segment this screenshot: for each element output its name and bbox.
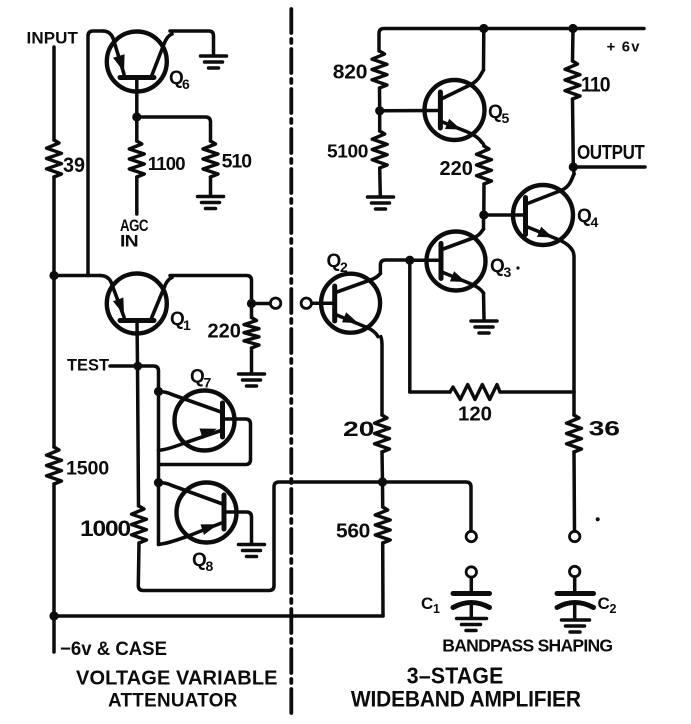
terminal circle C1 upper: [466, 531, 476, 541]
node at 409,260: [405, 256, 414, 265]
svg-text:BANDPASS SHAPING: BANDPASS SHAPING: [442, 636, 612, 656]
wire 39 to junction: [52, 177, 56, 276]
wire Q8 base: [224, 512, 252, 543]
resistor 5100: [327, 111, 387, 168]
resistor 560: [336, 482, 390, 543]
wire 510 to ground: [209, 177, 213, 196]
speck near C2: [596, 517, 600, 521]
node at 136,117: [132, 112, 141, 121]
terminal circle C2 lower: [570, 566, 580, 576]
svg-text:3–STAGE: 3–STAGE: [407, 663, 504, 689]
transistor Q8: [159, 483, 237, 575]
svg-text:1000: 1000: [80, 516, 131, 541]
svg-text:WIDEBAND AMPLIFIER: WIDEBAND AMPLIFIER: [351, 687, 581, 712]
resistor 510: [203, 141, 251, 177]
ground Q8: [239, 545, 265, 557]
svg-text:1: 1: [433, 602, 440, 616]
svg-text:220: 220: [208, 321, 241, 343]
wire Q5 collector up to rail: [482, 29, 486, 71]
label AGC IN: [120, 217, 149, 251]
node at 379,111: [375, 106, 384, 115]
wire feedback right segment: [500, 390, 574, 394]
svg-text:TEST: TEST: [67, 357, 109, 375]
resistor 20: [343, 415, 390, 452]
transistor Q7: [159, 367, 235, 451]
wire 560 bottom: [381, 543, 385, 616]
transistor Q2: [321, 251, 380, 337]
svg-text:−6v & CASE: −6v & CASE: [60, 639, 167, 660]
svg-text:6: 6: [182, 76, 190, 92]
wire Q6 base: [135, 78, 139, 142]
wire Q1 base down: [137, 321, 139, 507]
svg-text:510: 510: [222, 152, 252, 173]
wire 36 bottom to C2 terminal: [572, 452, 576, 531]
svg-text:7: 7: [204, 375, 212, 391]
wire Q3 base / feedback stub: [408, 260, 412, 392]
wire 220 to ground: [250, 348, 254, 373]
ground Q6 collector: [201, 56, 227, 68]
node at 251,304: [247, 299, 256, 308]
node at 382,482: [378, 477, 387, 486]
wire 1000 bottom loop to amplifier: [138, 482, 382, 591]
node at 54,275: [49, 271, 58, 280]
svg-text:1100: 1100: [148, 153, 185, 174]
resistor 1500: [47, 447, 110, 484]
svg-text:120: 120: [458, 404, 492, 426]
wire Q2 emitter down: [381, 337, 382, 415]
resistor 220 right: [440, 146, 492, 184]
terminal circle C1 lower: [466, 567, 476, 577]
svg-text:220: 220: [440, 158, 473, 180]
wire Q7 base loop: [159, 419, 251, 465]
ground 5100: [368, 197, 394, 209]
resistor 110: [565, 29, 610, 100]
wire left rail lower: [52, 276, 56, 653]
ground 220 left: [239, 374, 265, 386]
node at 573,167: [569, 162, 578, 171]
wire 5100 to ground: [378, 168, 382, 196]
wire Q3 emitter to ground: [482, 293, 486, 319]
wire terminal to Q2 base: [312, 301, 335, 305]
svg-text:C: C: [421, 594, 433, 613]
node at 158,391: [154, 387, 163, 396]
wire Q1 collector to node: [170, 276, 252, 304]
resistor 120: [450, 385, 500, 426]
wire 20 bottom: [380, 452, 384, 482]
wire 110 bottom: [571, 99, 575, 167]
wire Q4 emitter down: [572, 249, 575, 415]
terminal circle right: [301, 298, 311, 308]
ground 510: [198, 197, 224, 209]
svg-text:ATTENUATOR: ATTENUATOR: [108, 691, 238, 712]
wire Q3 base lead: [410, 258, 441, 262]
node at 484,215: [479, 210, 488, 219]
capacitor C1: [421, 578, 490, 618]
wire Q5 base lead: [380, 109, 441, 113]
node at 573,28: [568, 24, 577, 33]
wire Q3 collector up to node: [482, 215, 486, 229]
svg-text:1500: 1500: [66, 458, 109, 480]
transistor Q6: [103, 31, 190, 92]
svg-text:110: 110: [581, 74, 610, 97]
resistor 220 left: [208, 304, 260, 349]
capacitor C2: [557, 577, 617, 618]
wire 220 bottom: [482, 184, 486, 215]
svg-text:VOLTAGE VARIABLE: VOLTAGE VARIABLE: [76, 668, 278, 690]
svg-text:4: 4: [591, 214, 599, 230]
wire Q2 collector to node: [380, 260, 410, 274]
svg-text:8: 8: [206, 558, 214, 574]
wire OUTPUT lead: [573, 165, 645, 169]
wire Q6 collector to ground: [170, 31, 214, 55]
terminal circle left: [270, 298, 280, 308]
svg-text:36: 36: [589, 418, 620, 441]
svg-text:IN: IN: [120, 233, 138, 251]
wire top rail +6v: [379, 29, 644, 52]
node at 54,616: [49, 611, 58, 620]
wire feedback left segment: [410, 390, 450, 394]
wire TEST branch right and down: [138, 366, 159, 544]
ground C2: [562, 620, 590, 632]
svg-text:820: 820: [333, 61, 368, 84]
svg-text:1: 1: [183, 317, 191, 333]
node at 158,483: [154, 478, 163, 487]
terminal circle C2 upper: [570, 531, 580, 541]
svg-text:C: C: [598, 594, 610, 613]
resistor 1100: [129, 141, 185, 177]
ground Q3: [471, 321, 497, 333]
wire TEST lead: [110, 364, 138, 368]
wire input left branch: [52, 47, 56, 140]
divider dash-dot line: [289, 9, 293, 716]
svg-text:2: 2: [340, 259, 348, 275]
svg-text:5: 5: [502, 110, 510, 126]
node at 138,366: [133, 362, 142, 371]
transistor Q4: [513, 174, 599, 249]
wire input node to Q1 emitter: [54, 274, 100, 278]
wire input top branch: [88, 31, 103, 276]
svg-text:39: 39: [63, 154, 85, 177]
wire Q5 emitter down: [482, 142, 485, 146]
transistor Q5: [425, 70, 510, 142]
wire 820 bottom: [378, 88, 382, 111]
resistor 36: [567, 415, 621, 452]
node at 484,28: [479, 24, 488, 33]
svg-text:20: 20: [343, 418, 374, 441]
resistor 820: [333, 51, 387, 88]
svg-text:5100: 5100: [327, 141, 368, 162]
transistor Q1: [100, 274, 191, 334]
wire base node to 510: [137, 117, 211, 141]
wire Q4 collector to output node: [572, 167, 576, 174]
svg-text:+ 6v: + 6v: [607, 40, 641, 56]
svg-text:2: 2: [610, 602, 617, 616]
wire -6v bottom rail: [54, 614, 383, 618]
resistor 39: [47, 140, 86, 177]
wire 1100 bottom (AGC lead): [135, 177, 139, 214]
resistor 1000: [80, 506, 147, 543]
ground C1: [457, 619, 487, 631]
wire node to coupling terminal: [252, 302, 270, 306]
wire junction to C1 terminal: [383, 482, 472, 531]
svg-text:OUTPUT: OUTPUT: [577, 142, 645, 164]
svg-text:3: 3: [504, 264, 512, 280]
wire Q4 base lead: [484, 213, 526, 217]
svg-text:560: 560: [336, 521, 370, 543]
svg-text:INPUT: INPUT: [27, 29, 79, 48]
transistor Q3: [427, 229, 520, 293]
